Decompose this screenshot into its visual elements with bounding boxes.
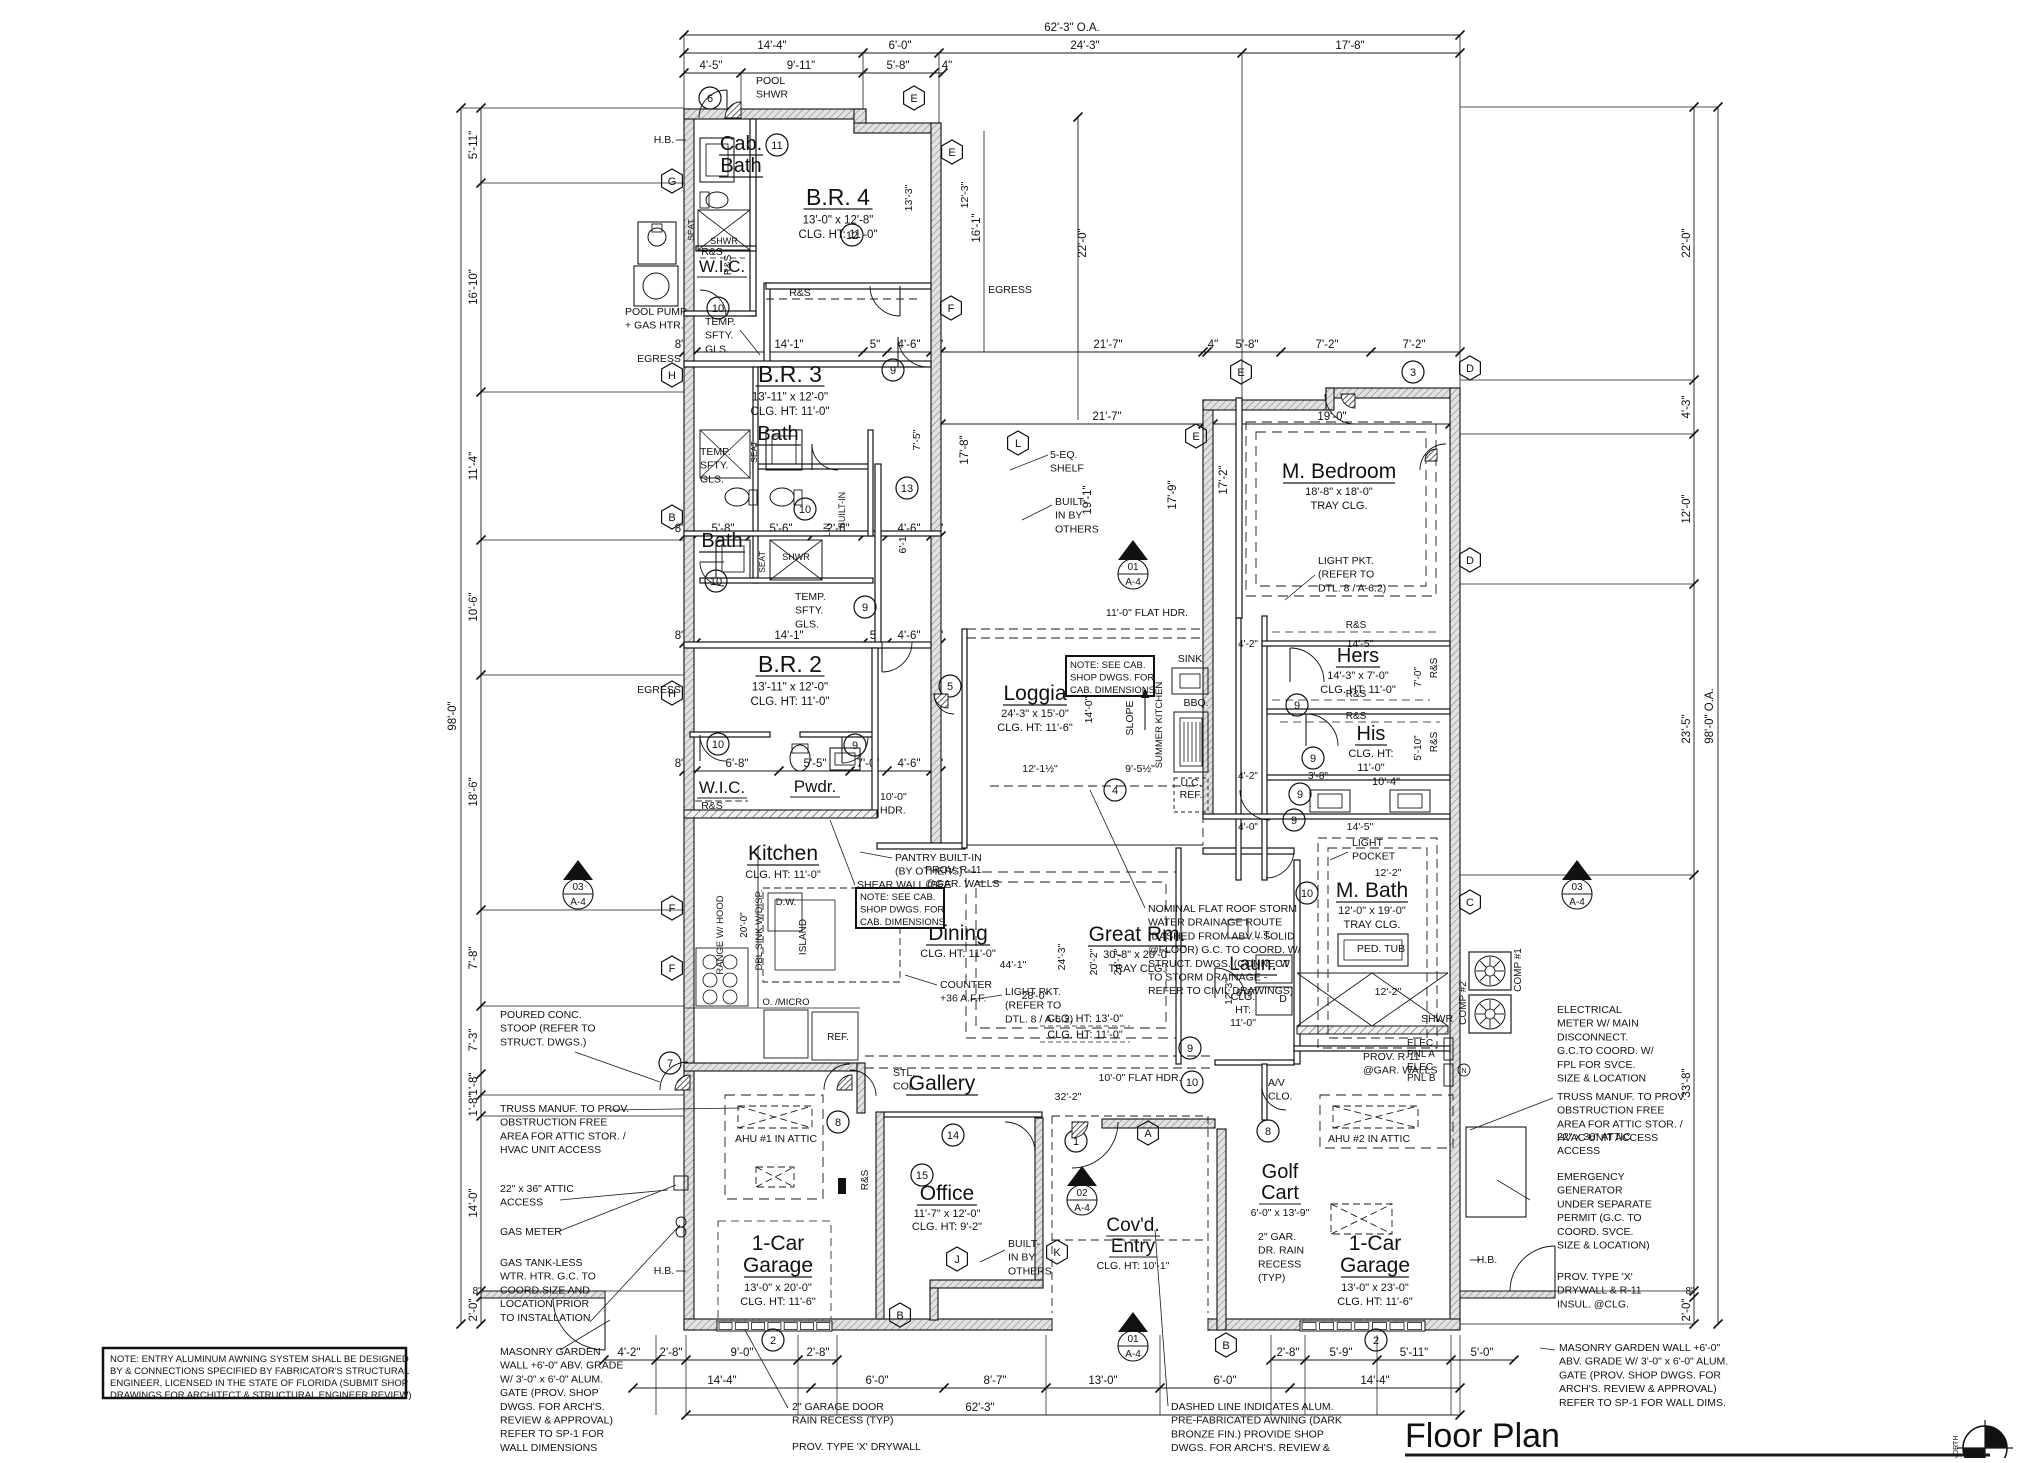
note box bbox=[103, 1348, 406, 1398]
svg-text:15: 15 bbox=[916, 1170, 928, 1182]
hers door bbox=[1290, 648, 1324, 682]
svg-text:11'-0": 11'-0" bbox=[1230, 1017, 1256, 1029]
svg-text:CLG. HT: 9'-2": CLG. HT: 9'-2" bbox=[912, 1221, 982, 1233]
svg-text:WALL +6'-0" ABV. GRADE: WALL +6'-0" ABV. GRADE bbox=[500, 1360, 623, 1372]
svg-text:ELEC: ELEC bbox=[1407, 1062, 1433, 1073]
m bedroom entry door bbox=[1341, 394, 1355, 408]
north arrow bbox=[1963, 1426, 2007, 1463]
svg-text:98'-0" O.A.: 98'-0" O.A. bbox=[1704, 688, 1716, 744]
svg-text:W.I.C.: W.I.C. bbox=[699, 257, 745, 276]
wall grid B bath bbox=[684, 531, 941, 536]
section flag 02/A-4 bbox=[1067, 1166, 1097, 1186]
svg-text:1-Car: 1-Car bbox=[752, 1232, 805, 1255]
right dim column bbox=[1693, 107, 1695, 1324]
svg-text:22" x 36" ATTIC: 22" x 36" ATTIC bbox=[1557, 1131, 1631, 1143]
pool equipment bbox=[638, 222, 676, 264]
svg-text:12'-3": 12'-3" bbox=[1224, 979, 1235, 1005]
svg-text:PNL A: PNL A bbox=[1407, 1049, 1435, 1060]
svg-text:NORTH: NORTH bbox=[1953, 1436, 1960, 1458]
svg-text:4'-3": 4'-3" bbox=[1681, 396, 1693, 419]
svg-text:4": 4" bbox=[942, 60, 952, 72]
svg-text:4'-6": 4'-6" bbox=[898, 758, 921, 770]
left overall dimension 98-0 bbox=[460, 108, 462, 1324]
washer dryer bbox=[1256, 955, 1292, 983]
AHU1 bbox=[738, 1106, 812, 1128]
grid bubble E bbox=[904, 86, 925, 110]
svg-text:W/ 3'-0" x 6'-0" ALUM.: W/ 3'-0" x 6'-0" ALUM. bbox=[500, 1373, 603, 1385]
svg-text:Entry: Entry bbox=[1111, 1236, 1156, 1257]
svg-text:7'-2": 7'-2" bbox=[1403, 339, 1426, 351]
keynote 10 bbox=[1181, 1071, 1203, 1093]
svg-text:9: 9 bbox=[1187, 1043, 1193, 1055]
svg-text:8: 8 bbox=[1265, 1126, 1271, 1138]
svg-text:HT:: HT: bbox=[1235, 1004, 1251, 1016]
svg-text:(DASHED FROM ABV. / SOLID: (DASHED FROM ABV. / SOLID bbox=[1148, 930, 1295, 942]
svg-text:ABV. GRADE W/ 3'-0" x 6'-0" AL: ABV. GRADE W/ 3'-0" x 6'-0" ALUM. bbox=[1559, 1356, 1728, 1368]
svg-text:GATE (PROV. SHOP DWGS. FOR: GATE (PROV. SHOP DWGS. FOR bbox=[1559, 1369, 1721, 1381]
svg-text:8": 8" bbox=[1685, 1286, 1695, 1297]
svg-text:28'-0": 28'-0" bbox=[1022, 990, 1049, 1002]
svg-text:4: 4 bbox=[1112, 785, 1118, 797]
wall cab.bath east bbox=[750, 119, 756, 316]
svg-text:U.C.: U.C. bbox=[1181, 777, 1202, 789]
svg-text:Garage: Garage bbox=[743, 1254, 813, 1277]
svg-text:17'-8": 17'-8" bbox=[1335, 40, 1364, 52]
top dim row B bbox=[684, 52, 1460, 54]
svg-text:GATE (PROV. SHOP: GATE (PROV. SHOP bbox=[500, 1387, 599, 1399]
svg-text:17'-8": 17'-8" bbox=[959, 435, 971, 464]
svg-text:@FLOOR) G.C. TO COORD. W/: @FLOOR) G.C. TO COORD. W/ bbox=[1148, 944, 1301, 956]
svg-text:NOMINAL FLAT ROOF STORM: NOMINAL FLAT ROOF STORM bbox=[1148, 903, 1297, 915]
svg-text:B: B bbox=[896, 1310, 903, 1322]
svg-text:7'-3": 7'-3" bbox=[468, 1029, 480, 1052]
svg-text:POOL: POOL bbox=[756, 75, 785, 87]
svg-text:W: W bbox=[1280, 958, 1290, 970]
svg-text:1'-8": 1'-8" bbox=[468, 1073, 480, 1096]
svg-text:R&S: R&S bbox=[701, 246, 723, 258]
svg-text:12'-2": 12'-2" bbox=[1375, 867, 1402, 879]
svg-text:RECESS: RECESS bbox=[1258, 1258, 1301, 1270]
svg-text:RAIN RECESS (TYP): RAIN RECESS (TYP) bbox=[792, 1415, 894, 1427]
shear wall (hatched) bbox=[684, 810, 877, 818]
svg-text:13'-11" x 12'-0": 13'-11" x 12'-0" bbox=[752, 392, 828, 404]
svg-text:C: C bbox=[1466, 897, 1474, 909]
svg-text:Floor Plan: Floor Plan bbox=[1405, 1417, 1560, 1455]
wall BR3 north (grid H) bbox=[684, 361, 931, 367]
wall BR2 north bbox=[684, 642, 931, 648]
svg-text:9: 9 bbox=[890, 365, 896, 377]
exterior wall right bbox=[1450, 388, 1460, 1330]
svg-text:5-EQ.: 5-EQ. bbox=[1050, 449, 1077, 461]
pwdr fixtures bbox=[790, 745, 810, 771]
office door bbox=[1005, 1122, 1035, 1152]
svg-text:17'-9": 17'-9" bbox=[1167, 480, 1179, 509]
svg-text:L: L bbox=[1015, 438, 1021, 450]
svg-text:10: 10 bbox=[1186, 1077, 1198, 1089]
svg-text:5'-11": 5'-11" bbox=[468, 131, 480, 159]
bottom dim rows bbox=[604, 1359, 837, 1361]
interior dim row y536 bbox=[684, 535, 941, 537]
svg-text:6'-8": 6'-8" bbox=[726, 758, 749, 770]
svg-text:F: F bbox=[669, 903, 676, 915]
keynote 9 bbox=[1302, 747, 1324, 769]
loggia floor edge bbox=[967, 844, 1203, 846]
keynote 9 bbox=[1289, 783, 1311, 805]
svg-text:CLG. HT: 10'-1": CLG. HT: 10'-1" bbox=[1097, 1260, 1170, 1272]
svg-text:Office: Office bbox=[920, 1182, 974, 1205]
svg-text:2'-8": 2'-8" bbox=[660, 1347, 683, 1359]
svg-text:21'-7": 21'-7" bbox=[1093, 339, 1122, 351]
svg-text:D: D bbox=[1466, 555, 1474, 567]
svg-text:ELEC: ELEC bbox=[1407, 1038, 1433, 1049]
wall BR4 south bbox=[766, 283, 931, 289]
keynote 12 bbox=[841, 224, 863, 246]
svg-text:M. Bath: M. Bath bbox=[1336, 879, 1408, 902]
svg-text:9'-0": 9'-0" bbox=[731, 1347, 754, 1359]
hers R&S dashes bbox=[1272, 631, 1440, 633]
svg-text:WALL DIMENSIONS: WALL DIMENSIONS bbox=[500, 1442, 597, 1454]
svg-text:10'-0" FLAT HDR.: 10'-0" FLAT HDR. bbox=[1099, 1072, 1182, 1084]
svg-text:SHWR: SHWR bbox=[710, 236, 738, 246]
svg-text:CLG. HT: 11'-0": CLG. HT: 11'-0" bbox=[920, 948, 996, 960]
svg-text:2'-0": 2'-0" bbox=[1681, 1299, 1693, 1322]
svg-text:10: 10 bbox=[799, 504, 811, 516]
svg-text:24'-7": 24'-7" bbox=[1112, 948, 1124, 975]
great room east wall bbox=[1176, 848, 1181, 1064]
svg-text:OTHERS: OTHERS bbox=[1008, 1265, 1052, 1277]
svg-text:1'-8": 1'-8" bbox=[468, 1094, 480, 1117]
svg-text:NOTE: SEE CAB.: NOTE: SEE CAB. bbox=[860, 892, 936, 903]
garden wall right bbox=[1460, 1291, 1555, 1298]
wall wic south bbox=[684, 311, 756, 316]
svg-text:M. Bedroom: M. Bedroom bbox=[1282, 460, 1396, 483]
svg-text:9: 9 bbox=[1297, 789, 1303, 801]
svg-text:BUILT-: BUILT- bbox=[1008, 1238, 1040, 1250]
keynote 10 bbox=[707, 297, 729, 319]
svg-text:02: 02 bbox=[1076, 1188, 1088, 1199]
svg-text:STL.: STL. bbox=[893, 1067, 915, 1079]
svg-text:AHU #2 IN ATTIC: AHU #2 IN ATTIC bbox=[1328, 1133, 1410, 1145]
keynote 10 bbox=[705, 570, 727, 592]
svg-text:CLG. HT: 11'-0": CLG. HT: 11'-0" bbox=[1047, 1029, 1123, 1041]
svg-text:PROV. TYPE 'X': PROV. TYPE 'X' bbox=[1557, 1271, 1633, 1283]
svg-text:F: F bbox=[948, 303, 955, 315]
loggia header dashes bbox=[967, 628, 1203, 630]
keynote 11 bbox=[766, 134, 788, 156]
svg-text:TEMP.: TEMP. bbox=[700, 446, 731, 458]
svg-text:DR. RAIN: DR. RAIN bbox=[1258, 1245, 1304, 1257]
svg-text:COORD.SIZE AND: COORD.SIZE AND bbox=[500, 1284, 590, 1296]
svg-text:W.I.C.: W.I.C. bbox=[699, 778, 745, 797]
svg-text:ENGINEER, LICENSED IN THE STA: ENGINEER, LICENSED IN THE STATE OF FLORI… bbox=[110, 1378, 408, 1389]
svg-text:@GAR. WALLS: @GAR. WALLS bbox=[925, 878, 999, 890]
svg-text:CLG. HT: 11'-6": CLG. HT: 11'-6" bbox=[740, 1296, 816, 1308]
svg-text:9'-5½": 9'-5½" bbox=[1125, 763, 1155, 775]
svg-text:BBQ.: BBQ. bbox=[1183, 697, 1208, 709]
svg-text:20'-2": 20'-2" bbox=[1088, 948, 1100, 975]
svg-text:GLS.: GLS. bbox=[705, 343, 729, 355]
svg-text:14'-4": 14'-4" bbox=[757, 40, 786, 52]
hall doors bbox=[1240, 790, 1270, 820]
svg-text:SEAT: SEAT bbox=[749, 441, 759, 463]
Great Rm light pocket bbox=[966, 872, 1176, 1038]
svg-text:STRUCT. DWGS.): STRUCT. DWGS.) bbox=[500, 1036, 586, 1048]
svg-text:3: 3 bbox=[1410, 367, 1416, 379]
wall wic/corridor east bbox=[764, 283, 770, 367]
svg-text:PRE-FABRICATED AWNING (DARK: PRE-FABRICATED AWNING (DARK bbox=[1171, 1415, 1342, 1427]
svg-text:PNL B: PNL B bbox=[1407, 1073, 1436, 1084]
svg-text:Pwdr.: Pwdr. bbox=[794, 777, 837, 796]
svg-text:ARCH'S. REVIEW & APPROVAL): ARCH'S. REVIEW & APPROVAL) bbox=[1559, 1383, 1717, 1395]
dishwasher bbox=[768, 893, 802, 931]
wic door bbox=[700, 290, 726, 316]
svg-text:TRUSS MANUF. TO PROV.: TRUSS MANUF. TO PROV. bbox=[1557, 1091, 1686, 1103]
svg-text:GAS TANK-LESS: GAS TANK-LESS bbox=[500, 1257, 582, 1269]
kitchen island (dashed) bbox=[763, 888, 900, 982]
section flag 01/A-4 bbox=[1118, 1312, 1148, 1332]
svg-text:GLS.: GLS. bbox=[700, 473, 724, 485]
grid bubble A bbox=[1138, 1121, 1159, 1145]
svg-text:22" x 36" ATTIC: 22" x 36" ATTIC bbox=[500, 1183, 574, 1195]
svg-text:12'-2": 12'-2" bbox=[1375, 986, 1402, 998]
svg-text:13'-0" x 23'-0": 13'-0" x 23'-0" bbox=[1341, 1282, 1409, 1294]
svg-text:14'-4": 14'-4" bbox=[707, 1375, 736, 1387]
garage recess dashed bbox=[718, 1221, 831, 1319]
grid bubble C bbox=[1460, 890, 1481, 914]
svg-text:F: F bbox=[669, 963, 676, 975]
interior dim row y352 bbox=[684, 351, 941, 353]
keynote 3 bbox=[1402, 361, 1424, 383]
svg-text:24'-3": 24'-3" bbox=[1056, 943, 1068, 970]
svg-text:7'-8": 7'-8" bbox=[468, 947, 480, 970]
svg-text:COMP #1: COMP #1 bbox=[1513, 948, 1524, 992]
svg-text:R&S: R&S bbox=[860, 1169, 871, 1190]
pwdr door bbox=[842, 737, 868, 763]
svg-text:MASONRY GARDEN WALL +6'-0": MASONRY GARDEN WALL +6'-0" bbox=[1559, 1342, 1721, 1354]
svg-text:14'-1": 14'-1" bbox=[774, 339, 803, 351]
svg-text:5'-0": 5'-0" bbox=[1471, 1347, 1494, 1359]
svg-text:6: 6 bbox=[707, 93, 713, 105]
svg-text:EGRESS: EGRESS bbox=[637, 353, 681, 365]
svg-text:R&S: R&S bbox=[1429, 657, 1440, 678]
bath upper wall bbox=[753, 464, 873, 469]
dim 16-1 bbox=[983, 131, 985, 352]
svg-text:18'-8" x 18'-0": 18'-8" x 18'-0" bbox=[1305, 486, 1373, 498]
svg-text:His: His bbox=[1357, 723, 1386, 745]
svg-text:TO INSTALLATION: TO INSTALLATION bbox=[500, 1312, 590, 1324]
m.bedroom south wall bbox=[1235, 1450, 1237, 1456]
grid bubble D bbox=[1460, 548, 1481, 572]
svg-text:LIN: LIN bbox=[822, 523, 832, 537]
svg-text:OBSTRUCTION FREE: OBSTRUCTION FREE bbox=[1557, 1105, 1664, 1117]
svg-text:DTL. 8 / A-6.2): DTL. 8 / A-6.2) bbox=[1318, 582, 1386, 594]
svg-text:Cov'd.: Cov'd. bbox=[1106, 1215, 1159, 1236]
grid bubble D bbox=[1460, 356, 1481, 380]
svg-text:14: 14 bbox=[947, 1130, 959, 1142]
garden wall left bbox=[481, 1291, 605, 1298]
svg-text:CLG. HT: 11'-6": CLG. HT: 11'-6" bbox=[1337, 1296, 1413, 1308]
bath2 door bbox=[700, 562, 724, 586]
section flag 03/A-4 bbox=[1562, 860, 1592, 880]
svg-text:SHWR: SHWR bbox=[756, 89, 788, 101]
pool shower door bbox=[699, 90, 727, 118]
svg-text:SFTY.: SFTY. bbox=[700, 460, 728, 472]
svg-text:11: 11 bbox=[771, 140, 782, 152]
svg-text:22'-0": 22'-0" bbox=[1077, 228, 1089, 257]
svg-text:CLG. HT: 11'-0": CLG. HT: 11'-0" bbox=[745, 869, 821, 881]
svg-text:HVAC UNIT ACCESS: HVAC UNIT ACCESS bbox=[500, 1144, 601, 1156]
master hall east wall bbox=[1262, 616, 1267, 880]
svg-text:K: K bbox=[1053, 1247, 1061, 1259]
office north wall bbox=[884, 1112, 1042, 1117]
svg-text:WTR. HTR. G.C. TO: WTR. HTR. G.C. TO bbox=[500, 1271, 596, 1283]
svg-text:3'-8": 3'-8" bbox=[1308, 771, 1328, 782]
svg-text:14'-3" x 7'-0": 14'-3" x 7'-0" bbox=[1327, 670, 1389, 682]
svg-text:21'-7": 21'-7" bbox=[1092, 411, 1121, 423]
svg-text:E: E bbox=[1237, 367, 1244, 379]
svg-text:11'-0": 11'-0" bbox=[1357, 762, 1384, 774]
svg-text:REFER TO SP-1 FOR WALL DIMS.: REFER TO SP-1 FOR WALL DIMS. bbox=[1559, 1397, 1726, 1409]
svg-text:B.R. 4: B.R. 4 bbox=[806, 184, 870, 210]
svg-text:LIGHT: LIGHT bbox=[1352, 837, 1384, 849]
svg-text:BRONZE FIN.) PROVIDE SHOP: BRONZE FIN.) PROVIDE SHOP bbox=[1171, 1428, 1324, 1440]
svg-text:Golf: Golf bbox=[1262, 1161, 1299, 1183]
svg-text:A-4: A-4 bbox=[1125, 577, 1141, 588]
keynote 9 bbox=[882, 359, 904, 381]
svg-text:H.B.: H.B. bbox=[654, 134, 674, 146]
svg-text:SHOP DWGS. FOR: SHOP DWGS. FOR bbox=[860, 905, 944, 916]
svg-text:Gallery: Gallery bbox=[909, 1072, 976, 1095]
svg-text:LOCATION PRIOR: LOCATION PRIOR bbox=[500, 1298, 589, 1310]
svg-text:1-Car: 1-Car bbox=[1349, 1232, 1402, 1255]
svg-text:03: 03 bbox=[1571, 882, 1583, 893]
svg-text:12'-1½": 12'-1½" bbox=[1022, 763, 1058, 775]
shwr curb hatched bbox=[1297, 1026, 1448, 1034]
svg-text:7'-0": 7'-0" bbox=[1413, 667, 1424, 687]
svg-text:Bath: Bath bbox=[757, 423, 798, 445]
svg-text:6'-5": 6'-5" bbox=[1236, 988, 1256, 999]
svg-text:18'-6": 18'-6" bbox=[468, 777, 480, 806]
svg-text:D: D bbox=[1466, 363, 1474, 375]
svg-text:4'-2": 4'-2" bbox=[1238, 771, 1258, 782]
svg-text:HDR.: HDR. bbox=[880, 805, 906, 817]
exterior wall: summer kitchen / wing west bbox=[1203, 400, 1213, 818]
svg-text:Bath: Bath bbox=[720, 155, 761, 177]
svg-text:CLG. HT: 11'-0": CLG. HT: 11'-0" bbox=[751, 696, 830, 708]
bath fixtures upper bath bbox=[700, 430, 750, 478]
right overall 98-0 OA bbox=[1717, 107, 1719, 1324]
svg-text:R&S: R&S bbox=[1429, 731, 1440, 752]
wall BR2 south east part bbox=[800, 732, 877, 737]
keynote 1 bbox=[1065, 1130, 1087, 1152]
grid bubble B bbox=[662, 505, 683, 529]
svg-text:2'-8": 2'-8" bbox=[1277, 1347, 1300, 1359]
svg-text:POCKET: POCKET bbox=[1352, 851, 1396, 863]
svg-text:22'-0": 22'-0" bbox=[1681, 228, 1693, 257]
svg-text:SIZE & LOCATION): SIZE & LOCATION) bbox=[1557, 1240, 1650, 1252]
svg-text:62'-3" O.A.: 62'-3" O.A. bbox=[1044, 22, 1100, 34]
svg-text:NOTE: ENTRY ALUMINUM AWNING SY: NOTE: ENTRY ALUMINUM AWNING SYSTEM SHALL… bbox=[110, 1354, 409, 1365]
entry awning dashed bbox=[1052, 1115, 1208, 1117]
svg-text:9: 9 bbox=[1294, 700, 1300, 712]
svg-text:6'-0": 6'-0" bbox=[866, 1375, 889, 1387]
svg-text:B: B bbox=[668, 512, 675, 524]
svg-text:BUILT-IN: BUILT-IN bbox=[837, 492, 847, 528]
exterior wall left bbox=[684, 109, 694, 1330]
svg-text:B.R. 2: B.R. 2 bbox=[758, 651, 822, 677]
svg-text:DWGS. FOR ARCH'S. REVIEW &: DWGS. FOR ARCH'S. REVIEW & bbox=[1171, 1442, 1330, 1454]
keynote 13 bbox=[896, 477, 918, 499]
svg-text:R&S: R&S bbox=[1346, 620, 1367, 631]
svg-text:10: 10 bbox=[1301, 888, 1313, 900]
svg-text:24'-3" x 15'-0": 24'-3" x 15'-0" bbox=[1001, 708, 1069, 720]
svg-text:CLG. HT: 11'-6": CLG. HT: 11'-6" bbox=[997, 722, 1073, 734]
courtyard dim 22-0 bbox=[1077, 117, 1079, 352]
svg-text:RANGE W/ HOOD: RANGE W/ HOOD bbox=[715, 895, 726, 974]
covered entry opening bbox=[1052, 1318, 1208, 1331]
interior dim row y771 bbox=[684, 770, 941, 772]
svg-text:PANTRY BUILT-IN: PANTRY BUILT-IN bbox=[895, 852, 982, 864]
svg-text:8'-7": 8'-7" bbox=[984, 1375, 1007, 1387]
svg-text:A/V: A/V bbox=[1268, 1077, 1285, 1089]
svg-text:12: 12 bbox=[846, 230, 858, 242]
svg-text:ELECTRICAL: ELECTRICAL bbox=[1557, 1004, 1622, 1016]
loggia door bbox=[934, 694, 948, 708]
svg-text:CLG. HT:: CLG. HT: bbox=[1348, 748, 1393, 760]
svg-text:E: E bbox=[1192, 431, 1199, 443]
svg-text:2'-0": 2'-0" bbox=[468, 1299, 480, 1322]
keynote 8 bbox=[827, 1111, 849, 1133]
svg-text:10'-0": 10'-0" bbox=[880, 791, 907, 803]
svg-text:SIZE & LOCATION: SIZE & LOCATION bbox=[1557, 1073, 1646, 1085]
svg-text:2'-8": 2'-8" bbox=[807, 1347, 830, 1359]
svg-text:Loggia: Loggia bbox=[1003, 682, 1066, 705]
ped tub bbox=[1338, 934, 1408, 966]
vanity wall bbox=[1203, 814, 1450, 819]
svg-text:4'-2": 4'-2" bbox=[1238, 639, 1258, 650]
grid bubble F bbox=[662, 956, 683, 980]
exterior wall top BR4 + jog bbox=[854, 109, 866, 133]
grid bubble E bbox=[1186, 424, 1207, 448]
svg-text:IN BY: IN BY bbox=[1008, 1252, 1035, 1264]
svg-text:UNDER SEPARATE: UNDER SEPARATE bbox=[1557, 1198, 1652, 1210]
svg-text:11'-7" x 12'-0": 11'-7" x 12'-0" bbox=[914, 1208, 981, 1220]
svg-text:6'-0": 6'-0" bbox=[1214, 1375, 1237, 1387]
wall BR3 east bbox=[753, 367, 758, 583]
m bedroom balcony door bbox=[1420, 444, 1446, 470]
svg-text:R&S: R&S bbox=[789, 287, 811, 299]
svg-text:COUNTER: COUNTER bbox=[940, 979, 992, 991]
svg-text:SLOPE: SLOPE bbox=[1124, 700, 1136, 735]
svg-text:12'-0" x 19'-0": 12'-0" x 19'-0" bbox=[1338, 905, 1406, 917]
svg-text:PROV. TYPE 'X' DRYWALL: PROV. TYPE 'X' DRYWALL bbox=[792, 1441, 921, 1453]
svg-text:(REFER TO: (REFER TO bbox=[1318, 569, 1374, 581]
grid bubble F bbox=[941, 296, 962, 320]
svg-text:E: E bbox=[948, 147, 955, 159]
svg-text:AREA FOR ATTIC STOR. /: AREA FOR ATTIC STOR. / bbox=[500, 1130, 626, 1142]
svg-text:R&S: R&S bbox=[701, 800, 723, 812]
keynote 9 bbox=[1179, 1037, 1201, 1059]
svg-text:4'-5": 4'-5" bbox=[700, 60, 723, 72]
svg-text:11'-0" FLAT HDR.: 11'-0" FLAT HDR. bbox=[1106, 607, 1188, 619]
svg-text:DBL SINK W/DISP.: DBL SINK W/DISP. bbox=[754, 890, 765, 971]
svg-text:EGRESS: EGRESS bbox=[988, 284, 1032, 296]
M.Bath light pocket bbox=[1318, 838, 1437, 1048]
svg-text:24'-3": 24'-3" bbox=[1070, 40, 1099, 52]
svg-text:PROV. R-11: PROV. R-11 bbox=[925, 864, 982, 876]
svg-text:CLO.: CLO. bbox=[1268, 1091, 1293, 1103]
grid bubble J bbox=[947, 1247, 968, 1271]
